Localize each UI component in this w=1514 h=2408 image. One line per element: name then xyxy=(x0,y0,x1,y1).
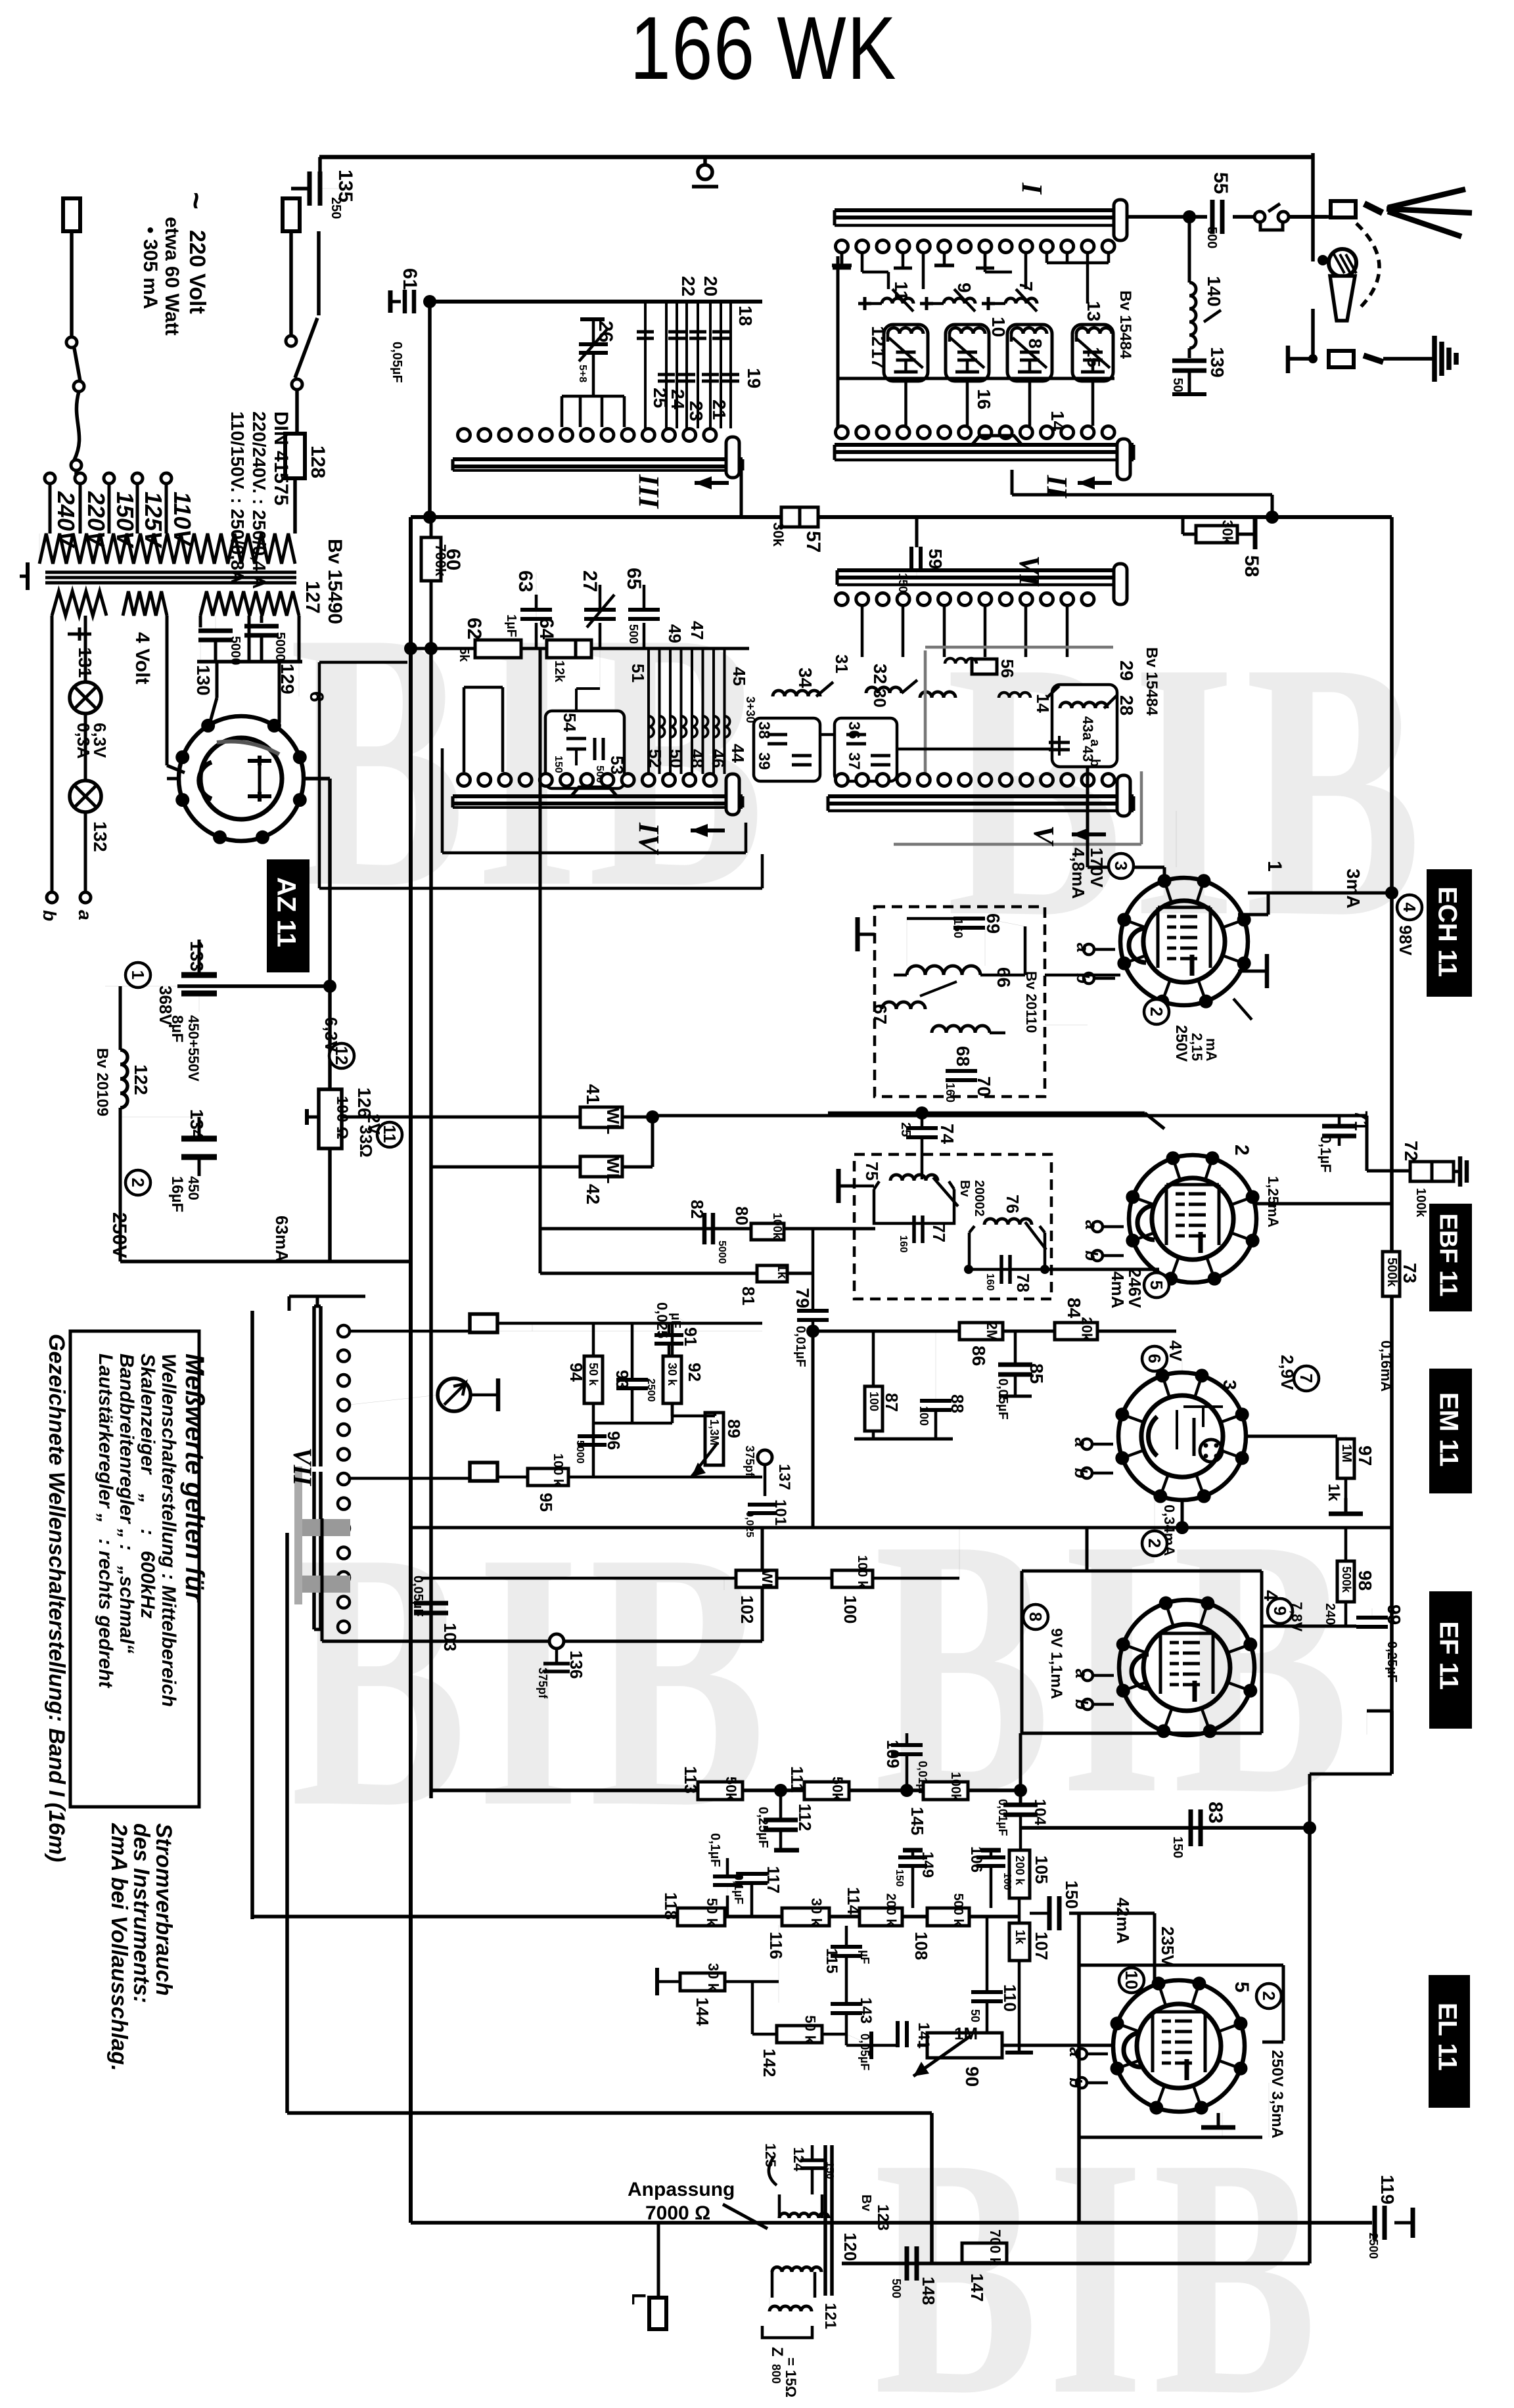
svg-text:7000 Ω: 7000 Ω xyxy=(645,2202,710,2224)
svg-text:46: 46 xyxy=(708,749,728,768)
svg-text:375pf: 375pf xyxy=(536,1668,549,1699)
svg-text:500: 500 xyxy=(890,2279,903,2298)
svg-text:8µF: 8µF xyxy=(168,1015,186,1043)
svg-text:L: L xyxy=(628,2293,649,2305)
svg-text:1k: 1k xyxy=(1325,1484,1342,1501)
svg-text:Meßwerte gelten für: Meßwerte gelten für xyxy=(180,1353,209,1603)
svg-text:124: 124 xyxy=(791,2147,807,2171)
svg-text:250V: 250V xyxy=(1172,1025,1190,1062)
svg-text:75: 75 xyxy=(862,1162,882,1181)
svg-text:2: 2 xyxy=(1231,1145,1252,1156)
svg-text:88: 88 xyxy=(948,1394,967,1413)
svg-text:71: 71 xyxy=(1351,1110,1371,1131)
svg-text:77: 77 xyxy=(929,1223,949,1242)
svg-text:100: 100 xyxy=(867,1392,881,1411)
svg-text:136: 136 xyxy=(566,1650,586,1679)
svg-text:0,05µF: 0,05µF xyxy=(996,1378,1010,1420)
svg-text:4V: 4V xyxy=(1166,1340,1185,1361)
svg-text:8: 8 xyxy=(1026,1612,1045,1622)
svg-text:I: I xyxy=(1016,182,1048,195)
svg-text:III: III xyxy=(633,474,665,509)
svg-text:42: 42 xyxy=(583,1184,603,1204)
svg-text:91: 91 xyxy=(681,1327,700,1346)
svg-text:24: 24 xyxy=(668,389,688,410)
svg-text:BIB: BIB xyxy=(290,1476,775,1884)
svg-text:133: 133 xyxy=(187,941,207,972)
svg-text:50k: 50k xyxy=(829,1777,846,1801)
svg-text:500 k: 500 k xyxy=(951,1894,965,1927)
svg-text:62: 62 xyxy=(463,618,485,639)
svg-text:48: 48 xyxy=(687,749,707,768)
svg-text:29: 29 xyxy=(1116,660,1137,681)
svg-text:= 15Ω: = 15Ω xyxy=(783,2357,799,2397)
svg-text:111: 111 xyxy=(787,1766,807,1793)
svg-text:1µF: 1µF xyxy=(504,614,518,637)
svg-text:50 k: 50 k xyxy=(704,1898,720,1927)
svg-text:132: 132 xyxy=(90,821,110,852)
svg-text:116: 116 xyxy=(766,1932,786,1959)
svg-text:65: 65 xyxy=(623,568,645,589)
svg-text:50: 50 xyxy=(666,749,686,768)
svg-text:78: 78 xyxy=(1013,1273,1033,1292)
svg-text:107: 107 xyxy=(1032,1932,1051,1960)
svg-text:2500: 2500 xyxy=(645,1378,656,1402)
svg-text:97: 97 xyxy=(1355,1445,1375,1466)
svg-text:Bv 20109: Bv 20109 xyxy=(93,1048,111,1116)
svg-text:Stromverbrauch: Stromverbrauch xyxy=(151,1823,176,1996)
svg-text:20: 20 xyxy=(700,276,721,296)
svg-text:41: 41 xyxy=(583,1084,603,1104)
svg-text:4mA: 4mA xyxy=(1108,1271,1128,1309)
svg-text:2M: 2M xyxy=(984,1322,1000,1342)
svg-text:93: 93 xyxy=(612,1370,632,1389)
svg-text:Bv 15484: Bv 15484 xyxy=(1143,647,1160,716)
svg-text:0,01µF: 0,01µF xyxy=(996,1799,1009,1836)
svg-text:113: 113 xyxy=(681,1766,700,1794)
svg-text:100: 100 xyxy=(840,1595,860,1624)
svg-text:etwa 60 Watt: etwa 60 Watt xyxy=(161,217,183,336)
svg-text:Bv 15484: Bv 15484 xyxy=(1116,290,1134,359)
svg-text:100: 100 xyxy=(1001,1873,1013,1890)
svg-text:a: a xyxy=(1066,2047,1086,2056)
svg-text:30 k: 30 k xyxy=(808,1898,825,1927)
svg-text:5000: 5000 xyxy=(273,632,287,662)
svg-text:500: 500 xyxy=(627,624,640,644)
svg-text:58: 58 xyxy=(1241,555,1262,577)
svg-text:26: 26 xyxy=(595,321,616,342)
svg-text:10: 10 xyxy=(1122,1970,1141,1989)
svg-text:38: 38 xyxy=(755,721,773,739)
svg-text:ECH 11: ECH 11 xyxy=(1433,886,1462,977)
svg-text:Skalenzeiger „ : 600kHz: Skalenzeiger „ : 600kHz xyxy=(137,1353,158,1619)
svg-text:1: 1 xyxy=(128,970,148,980)
svg-text:44: 44 xyxy=(728,744,748,763)
svg-text:0,025: 0,025 xyxy=(654,1302,670,1338)
svg-text:74: 74 xyxy=(937,1124,957,1145)
svg-text:110: 110 xyxy=(1000,1984,1020,2012)
svg-text:5: 5 xyxy=(1147,1281,1166,1290)
svg-text:220 Volt: 220 Volt xyxy=(185,230,210,314)
svg-text:100k: 100k xyxy=(771,1213,784,1240)
svg-text:20k: 20k xyxy=(1079,1317,1095,1341)
svg-text:2: 2 xyxy=(128,1178,148,1187)
svg-text:450+550V: 450+550V xyxy=(185,1015,202,1081)
svg-text:30: 30 xyxy=(870,689,890,708)
svg-text:90: 90 xyxy=(962,2066,982,2087)
svg-text:105: 105 xyxy=(1032,1855,1051,1884)
svg-text:60: 60 xyxy=(442,549,464,570)
svg-text:Bv 15490: Bv 15490 xyxy=(324,539,346,624)
svg-text:150: 150 xyxy=(553,756,564,773)
svg-text:2mA bei Vollausschlag.: 2mA bei Vollausschlag. xyxy=(106,1823,131,2071)
svg-text:59: 59 xyxy=(925,549,946,569)
svg-text:150: 150 xyxy=(894,1869,905,1887)
svg-text:a: a xyxy=(75,910,95,920)
svg-text:1: 1 xyxy=(1264,861,1285,872)
svg-text:3: 3 xyxy=(1111,861,1131,871)
svg-text:81: 81 xyxy=(739,1286,758,1306)
svg-text:16µF: 16µF xyxy=(168,1176,186,1212)
svg-text:15: 15 xyxy=(1084,347,1104,367)
svg-text:128: 128 xyxy=(307,445,329,478)
svg-text:13: 13 xyxy=(1084,301,1104,321)
svg-text:50 k: 50 k xyxy=(587,1363,600,1386)
svg-text:64: 64 xyxy=(536,618,557,640)
svg-text:1M: 1M xyxy=(1339,1444,1354,1463)
svg-text:Bv: Bv xyxy=(957,1180,972,1197)
svg-text:137: 137 xyxy=(775,1464,793,1490)
svg-text:39: 39 xyxy=(755,752,773,770)
svg-text:Bv 20110: Bv 20110 xyxy=(1023,971,1040,1033)
svg-text:25: 25 xyxy=(898,1122,913,1137)
svg-text:0,01µF: 0,01µF xyxy=(793,1326,808,1367)
svg-text:Lautstärkeregler „ : rechts g: Lautstärkeregler „ : rechts gedreht xyxy=(95,1353,116,1689)
svg-text:31: 31 xyxy=(832,654,852,673)
svg-text:Bv: Bv xyxy=(859,2194,873,2212)
svg-text:100k: 100k xyxy=(948,1772,963,1802)
svg-text:144: 144 xyxy=(693,1997,712,2026)
svg-text:5: 5 xyxy=(1231,1982,1252,1993)
svg-text:30k: 30k xyxy=(1220,520,1236,544)
svg-text:54: 54 xyxy=(560,713,580,732)
svg-text:147: 147 xyxy=(967,2273,987,2302)
svg-text:30 k: 30 k xyxy=(705,1963,722,1992)
svg-text:375pf: 375pf xyxy=(743,1445,756,1477)
svg-text:115: 115 xyxy=(823,1948,840,1974)
svg-text:118: 118 xyxy=(661,1892,681,1920)
svg-text:114: 114 xyxy=(844,1887,863,1915)
svg-text:9V 1,1mA: 9V 1,1mA xyxy=(1047,1628,1065,1699)
svg-text:55: 55 xyxy=(1210,172,1231,194)
svg-text:b: b xyxy=(1082,1250,1101,1261)
svg-text:98V: 98V xyxy=(1396,925,1415,956)
svg-text:450: 450 xyxy=(185,1176,202,1200)
svg-text:7: 7 xyxy=(1296,1374,1316,1383)
svg-text:a: a xyxy=(1071,1438,1091,1447)
svg-text:102: 102 xyxy=(737,1595,757,1624)
svg-text:18: 18 xyxy=(735,306,756,326)
svg-text:b: b xyxy=(1066,2078,1086,2088)
svg-text:VI: VI xyxy=(1013,555,1045,587)
svg-text:30k: 30k xyxy=(770,522,787,547)
svg-text:28: 28 xyxy=(1116,695,1137,716)
svg-text:100 k: 100 k xyxy=(551,1453,565,1487)
svg-text:106: 106 xyxy=(967,1846,985,1873)
svg-text:63: 63 xyxy=(515,570,536,592)
svg-text:7: 7 xyxy=(1016,281,1036,292)
svg-text:80: 80 xyxy=(732,1206,752,1225)
svg-text:127: 127 xyxy=(302,581,323,614)
svg-text:4: 4 xyxy=(1400,903,1419,913)
svg-text:0,05µF: 0,05µF xyxy=(390,342,404,383)
svg-text:10: 10 xyxy=(988,317,1009,337)
svg-text:103: 103 xyxy=(440,1623,460,1651)
svg-text:51: 51 xyxy=(628,664,648,683)
svg-text:5+8: 5+8 xyxy=(577,365,588,382)
svg-text:WL: WL xyxy=(603,1157,623,1184)
svg-text:70: 70 xyxy=(974,1076,994,1097)
svg-text:Gezeichnete Wellenschalterstel: Gezeichnete Wellenschalterstellung: Band… xyxy=(44,1334,69,1862)
svg-text:85: 85 xyxy=(1026,1363,1047,1384)
svg-text:160: 160 xyxy=(944,1083,957,1102)
svg-text:Bandbreitenregler „ : „schmal: Bandbreitenregler „ : „schmal“ xyxy=(116,1353,137,1654)
svg-text:5000: 5000 xyxy=(574,1440,585,1464)
svg-text:72: 72 xyxy=(1401,1141,1421,1161)
svg-text:53: 53 xyxy=(607,756,627,775)
svg-text:3: 3 xyxy=(1220,1380,1240,1390)
svg-text:200 k: 200 k xyxy=(884,1894,898,1927)
svg-text:EM 11: EM 11 xyxy=(1434,1392,1463,1466)
svg-text:WL: WL xyxy=(759,1570,775,1592)
svg-text:45: 45 xyxy=(729,667,749,686)
svg-text:104: 104 xyxy=(1031,1799,1049,1826)
svg-text:139: 139 xyxy=(1207,347,1227,378)
svg-text:50 k: 50 k xyxy=(802,2015,819,2044)
svg-text:250V: 250V xyxy=(108,1212,130,1258)
svg-text:149: 149 xyxy=(919,1851,936,1878)
svg-text:98: 98 xyxy=(1355,1570,1375,1591)
svg-text:b: b xyxy=(1088,759,1102,767)
svg-text:Wellenschalterstellung : Mitte: Wellenschalterstellung : Mittelbereich xyxy=(158,1353,179,1707)
svg-text:82: 82 xyxy=(687,1200,707,1219)
svg-text:50k: 50k xyxy=(723,1777,739,1801)
svg-text:30 k: 30 k xyxy=(666,1363,679,1386)
svg-text:IV: IV xyxy=(633,822,665,855)
svg-text:120: 120 xyxy=(840,2233,860,2261)
svg-text:700 k: 700 k xyxy=(987,2229,1003,2266)
svg-text:56: 56 xyxy=(998,659,1017,678)
svg-text:16: 16 xyxy=(974,389,994,409)
svg-text:131: 131 xyxy=(75,647,95,678)
svg-text:0,16mA: 0,16mA xyxy=(1378,1340,1394,1392)
svg-text:des Instruments:: des Instruments: xyxy=(129,1823,154,2003)
svg-text:160: 160 xyxy=(984,1273,996,1291)
svg-text:67: 67 xyxy=(870,1004,890,1024)
svg-text:0,1µF: 0,1µF xyxy=(708,1833,722,1867)
svg-text:63mA: 63mA xyxy=(272,1215,292,1262)
svg-text:500k: 500k xyxy=(1340,1566,1353,1593)
svg-text:36: 36 xyxy=(845,721,863,739)
svg-text:83: 83 xyxy=(1204,1802,1226,1823)
svg-text:69: 69 xyxy=(983,913,1003,934)
svg-text:50: 50 xyxy=(969,2009,982,2022)
svg-text:0,3A: 0,3A xyxy=(74,723,93,759)
svg-text:92: 92 xyxy=(685,1363,704,1382)
svg-text:0,1µF: 0,1µF xyxy=(1318,1135,1334,1173)
svg-text:250: 250 xyxy=(329,197,343,219)
svg-text:101: 101 xyxy=(771,1499,789,1526)
svg-text:166 WK: 166 WK xyxy=(630,0,898,99)
svg-text:87: 87 xyxy=(882,1393,902,1412)
svg-text:32: 32 xyxy=(870,664,890,684)
svg-text:61: 61 xyxy=(399,268,421,290)
svg-text:27: 27 xyxy=(579,570,601,592)
svg-text:119: 119 xyxy=(1377,2175,1398,2204)
svg-text:235V: 235V xyxy=(1158,1926,1178,1966)
svg-text:57: 57 xyxy=(802,531,824,553)
svg-text:17: 17 xyxy=(868,348,888,369)
svg-text:4 Volt: 4 Volt xyxy=(131,632,153,684)
svg-text:49: 49 xyxy=(665,624,685,643)
svg-text:43a: 43a xyxy=(1080,716,1096,740)
svg-text:4,8mA: 4,8mA xyxy=(1068,848,1088,899)
svg-text:170V: 170V xyxy=(1087,848,1107,888)
svg-text:a: a xyxy=(1072,1669,1091,1678)
svg-text:150: 150 xyxy=(1062,1880,1082,1909)
svg-text:EL 11: EL 11 xyxy=(1433,2003,1462,2071)
svg-text:37: 37 xyxy=(845,752,863,770)
svg-text:200 k: 200 k xyxy=(1013,1855,1026,1886)
svg-text:150: 150 xyxy=(1170,1836,1185,1858)
svg-text:500: 500 xyxy=(1204,227,1219,248)
svg-text:11: 11 xyxy=(891,281,911,301)
svg-text:142: 142 xyxy=(760,2049,779,2077)
svg-text:b: b xyxy=(1071,1468,1091,1478)
svg-text:VII: VII xyxy=(288,1447,317,1486)
svg-text:9: 9 xyxy=(1270,1606,1290,1616)
svg-text:1,25mA: 1,25mA xyxy=(1265,1176,1281,1227)
svg-text:• 305 mA: • 305 mA xyxy=(139,227,161,309)
svg-text:EF 11: EF 11 xyxy=(1434,1622,1463,1691)
svg-text:V: V xyxy=(1028,825,1060,847)
svg-text:52: 52 xyxy=(645,749,665,768)
svg-text:160: 160 xyxy=(952,919,965,938)
svg-text:145: 145 xyxy=(907,1807,927,1835)
svg-text:12k: 12k xyxy=(552,660,566,683)
svg-text:500k: 500k xyxy=(1385,1258,1399,1287)
svg-text:22: 22 xyxy=(678,276,699,296)
svg-text:0,25µF: 0,25µF xyxy=(756,1807,770,1848)
svg-text:9: 9 xyxy=(954,283,975,293)
svg-text:6: 6 xyxy=(306,691,327,702)
svg-text:3mA: 3mA xyxy=(1343,869,1364,909)
svg-text:Z: Z xyxy=(768,2347,786,2357)
svg-text:1k: 1k xyxy=(775,1264,789,1279)
svg-text:14: 14 xyxy=(1047,411,1068,432)
svg-text:2,9V: 2,9V xyxy=(1277,1355,1297,1390)
svg-text:160: 160 xyxy=(898,1235,909,1253)
svg-text:76: 76 xyxy=(1003,1194,1022,1214)
svg-text:5000: 5000 xyxy=(716,1240,727,1264)
svg-text:108: 108 xyxy=(911,1932,931,1960)
svg-text:2,15: 2,15 xyxy=(1189,1033,1205,1061)
svg-text:148: 148 xyxy=(919,2277,938,2305)
svg-text:134: 134 xyxy=(187,1109,207,1140)
svg-text:2500: 2500 xyxy=(1367,2233,1380,2259)
svg-text:0,025: 0,025 xyxy=(744,1511,755,1537)
svg-text:Anpassung: Anpassung xyxy=(628,2179,735,2200)
svg-text:34: 34 xyxy=(795,668,815,689)
svg-text:84: 84 xyxy=(1064,1298,1084,1319)
svg-text:123: 123 xyxy=(874,2204,892,2231)
svg-text:AZ 11: AZ 11 xyxy=(272,877,301,947)
svg-text:117: 117 xyxy=(764,1866,783,1894)
svg-text:6: 6 xyxy=(1145,1354,1164,1363)
svg-text:250V 3,5mA: 250V 3,5mA xyxy=(1268,2050,1286,2139)
svg-text:66: 66 xyxy=(994,967,1014,988)
svg-text:19: 19 xyxy=(744,368,764,388)
svg-text:122: 122 xyxy=(131,1064,151,1095)
svg-text:BIB: BIB xyxy=(874,1463,1359,1871)
svg-text:140: 140 xyxy=(1204,276,1224,307)
svg-text:µF: µF xyxy=(668,1313,683,1329)
svg-text:89: 89 xyxy=(724,1419,744,1438)
svg-text:mA: mA xyxy=(1203,1038,1220,1062)
svg-text:96: 96 xyxy=(604,1431,624,1450)
svg-text:25: 25 xyxy=(650,388,670,408)
svg-text:141: 141 xyxy=(915,2022,932,2049)
svg-text:99: 99 xyxy=(1384,1604,1404,1625)
svg-text:5000: 5000 xyxy=(228,636,242,666)
svg-text:DIN 41575: DIN 41575 xyxy=(270,411,292,505)
svg-text:240: 240 xyxy=(1323,1603,1337,1625)
svg-text:130: 130 xyxy=(193,665,214,696)
svg-text:121: 121 xyxy=(821,2303,839,2329)
svg-text:73: 73 xyxy=(1400,1263,1420,1283)
svg-text:112: 112 xyxy=(795,1804,815,1831)
svg-text:42mA: 42mA xyxy=(1113,1897,1133,1944)
svg-text:100 k: 100 k xyxy=(855,1555,869,1589)
svg-text:68: 68 xyxy=(953,1046,973,1066)
svg-text:100k: 100k xyxy=(1413,1188,1428,1217)
svg-text:12: 12 xyxy=(868,326,888,346)
svg-text:21: 21 xyxy=(709,399,729,420)
svg-text:0,05µF: 0,05µF xyxy=(411,1576,425,1617)
svg-text:1,3M: 1,3M xyxy=(708,1419,721,1445)
svg-text:50: 50 xyxy=(1170,378,1185,392)
svg-text:94: 94 xyxy=(566,1363,586,1382)
svg-text:2: 2 xyxy=(1259,1991,1279,2001)
svg-text:47: 47 xyxy=(687,621,707,640)
svg-text:b: b xyxy=(39,910,60,921)
svg-text:a: a xyxy=(1082,1220,1101,1229)
svg-text:79: 79 xyxy=(792,1288,813,1308)
svg-text:5k: 5k xyxy=(457,647,471,662)
svg-text:~: ~ xyxy=(179,192,214,210)
svg-text:0,25µF: 0,25µF xyxy=(1385,1641,1399,1683)
svg-text:86: 86 xyxy=(969,1346,989,1366)
svg-text:b: b xyxy=(1072,1699,1091,1710)
svg-text:95: 95 xyxy=(536,1493,556,1512)
svg-text:a: a xyxy=(1073,943,1093,952)
svg-text:6,3V: 6,3V xyxy=(321,1017,341,1053)
svg-text:125: 125 xyxy=(762,2143,779,2168)
svg-text:EBF 11: EBF 11 xyxy=(1434,1214,1462,1297)
svg-text:150: 150 xyxy=(824,2162,835,2179)
svg-text:µF: µF xyxy=(858,1950,871,1964)
svg-text:23: 23 xyxy=(686,401,706,421)
svg-text:800: 800 xyxy=(769,2364,783,2384)
